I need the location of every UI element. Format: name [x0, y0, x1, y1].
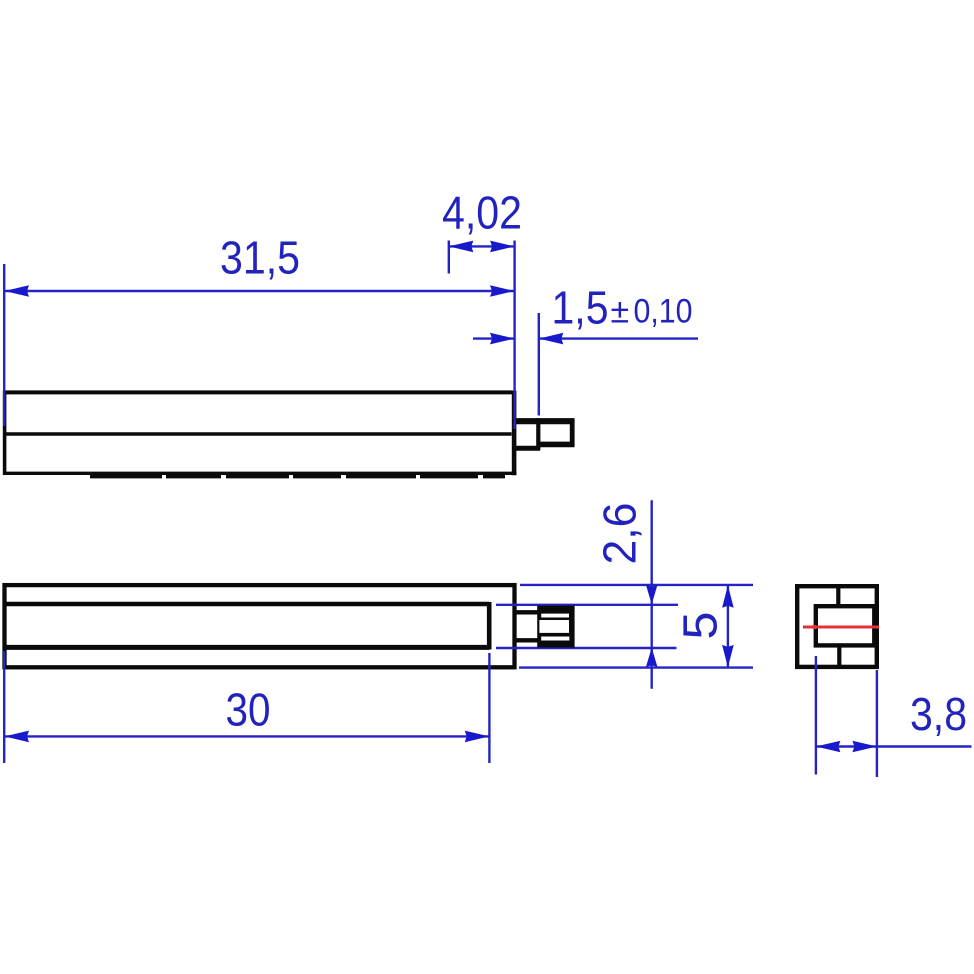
end view top divider: [836, 585, 840, 605]
upper view pin tab: [513, 418, 575, 450]
dimension 31,5 extension line left: [3, 264, 5, 426]
upper view knurl dashes: [90, 475, 505, 479]
lower side view outer body: [5, 585, 515, 667]
dimension 3,8 right arrow: [852, 741, 877, 753]
lower view contact cap: [537, 606, 574, 648]
dimension 31,5 line: [5, 290, 515, 292]
svg-text:5: 5: [675, 612, 728, 640]
dimension 30 line: [5, 735, 490, 737]
dimension 2,6 line: [651, 500, 653, 689]
upper side view body outline: [4, 391, 516, 476]
dimension 3,8 left arrow: [816, 741, 841, 753]
dimension 2,6 top arrow (pointing down): [646, 585, 658, 605]
dimension 2,6 bottom arrow (pointing up): [646, 648, 658, 668]
dimension 3,8 extension left: [815, 656, 817, 775]
svg-text:0,10: 0,10: [634, 293, 693, 331]
dimension 30 extension left: [3, 651, 5, 763]
extension line bottom edge: [519, 666, 753, 668]
dimension 31,5 left arrow: [5, 285, 30, 297]
dimension 1,5 right arrow (pointing left): [539, 333, 564, 345]
dimension 4,02 line: [449, 245, 515, 247]
dimension 4,02 right arrow: [490, 241, 514, 253]
extension line top edge: [520, 584, 753, 586]
end view outer square: [797, 586, 877, 667]
dimension 4,02 / 31,5 shared right extension: [513, 241, 515, 430]
dimension 4,02 left tick: [448, 241, 450, 274]
dimension 3,8 extension right: [876, 670, 878, 777]
extension line inner bottom edge: [496, 647, 677, 649]
end view red center line: [803, 626, 879, 629]
dimension 5 bottom arrow (pointing down): [722, 645, 734, 668]
dimension 5 line: [727, 585, 729, 667]
end view bottom divider: [837, 647, 841, 669]
svg-text:31,5: 31,5: [220, 232, 300, 284]
dimension 30 left arrow: [5, 731, 30, 743]
svg-text:30: 30: [226, 684, 271, 736]
dimension 30 extension right: [488, 653, 490, 763]
extension line inner top edge: [496, 604, 678, 606]
svg-text:3,8: 3,8: [910, 688, 967, 740]
lower side view inner contour: [4, 602, 489, 650]
dimension 4,02 left arrow: [449, 241, 474, 253]
svg-text:1,5: 1,5: [552, 282, 609, 334]
dimension 1,5 right extension: [538, 313, 540, 416]
dimension 5 top arrow (pointing up): [722, 585, 734, 608]
svg-text:4,02: 4,02: [442, 187, 522, 239]
dimension 30 right arrow: [465, 731, 490, 743]
dimension 31,5 right arrow: [490, 285, 515, 297]
svg-text:±: ±: [611, 293, 630, 331]
lower view contact pin arms: [515, 612, 538, 640]
dimension 1,5 left arrow (pointing right): [490, 333, 515, 345]
svg-text:2,6: 2,6: [594, 503, 646, 565]
dimension 3,8 line: [816, 745, 972, 747]
dimension 1,5 right segment: [539, 337, 698, 339]
end view inner rectangle: [816, 606, 875, 645]
dimension 1,5 left segment: [473, 337, 515, 339]
